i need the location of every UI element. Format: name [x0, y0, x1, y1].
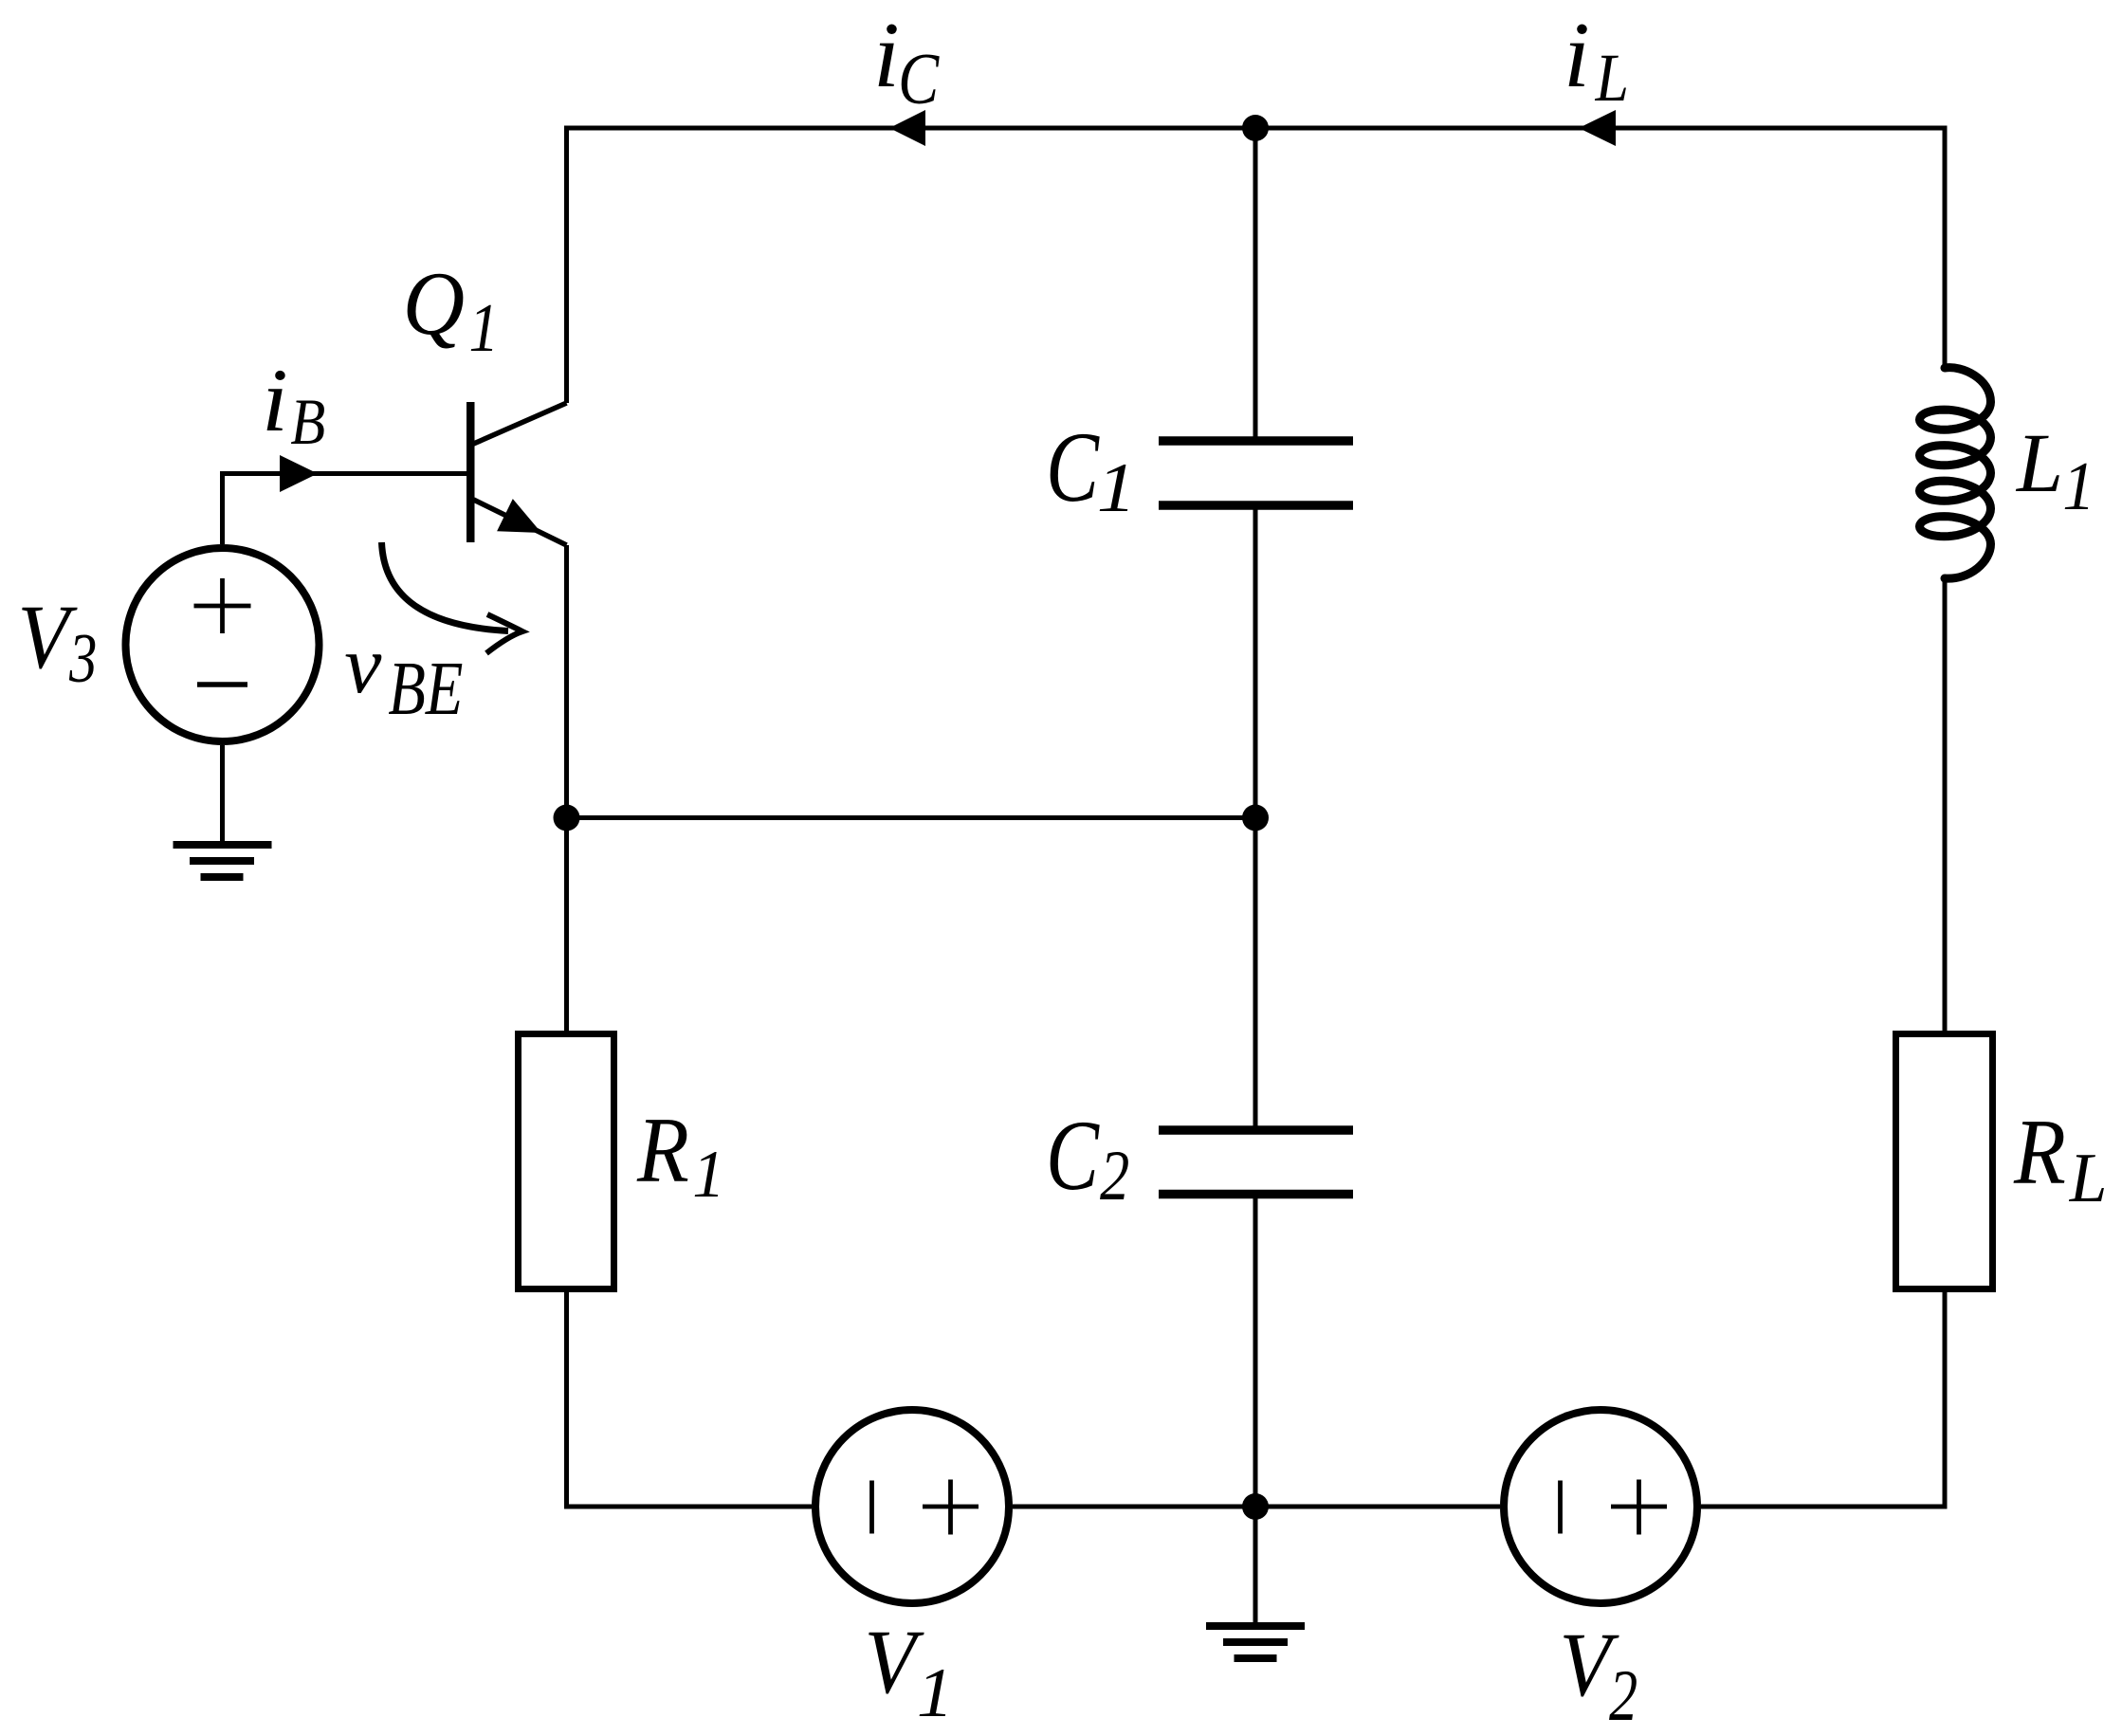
wire: V1 left terminal, bottom-left corner, up to R1 bottom — [567, 1292, 813, 1507]
svg-text:V: V — [865, 1612, 924, 1713]
svg-text:3: 3 — [68, 621, 97, 698]
current arrow iB — [280, 455, 318, 492]
junction node (emitter/R1) — [554, 805, 580, 831]
wire: C2 to bottom junction — [1253, 1197, 1258, 1507]
junction node (bottom, V1/V2/C2/ground) — [1242, 1493, 1269, 1520]
label vBE — [344, 619, 463, 731]
wire: bottom junction to ground — [1253, 1507, 1258, 1623]
label Q1 — [403, 254, 499, 366]
svg-text:BE: BE — [388, 647, 463, 731]
current arrow iC — [889, 110, 925, 146]
svg-text:C: C — [1046, 411, 1100, 523]
label V1 — [865, 1612, 954, 1732]
resistor R1 — [519, 1034, 614, 1289]
svg-text:R: R — [636, 1099, 689, 1202]
label iL — [1564, 5, 1629, 116]
wire: RL bottom, bottom-right corner to V2 right terminal — [1701, 1292, 1945, 1507]
svg-text:1: 1 — [1097, 449, 1136, 527]
capacitor C2 — [1159, 1125, 1353, 1198]
junction node (C1/C2 mid) — [1242, 805, 1269, 831]
svg-text:C: C — [898, 40, 940, 120]
label RL — [2013, 1101, 2107, 1216]
svg-text:v: v — [344, 619, 381, 710]
svg-text:i: i — [262, 351, 288, 450]
svg-text:R: R — [2013, 1101, 2066, 1204]
wire: V2 left terminal to V1 right terminal — [1013, 1505, 1500, 1509]
svg-text:1: 1 — [917, 1654, 954, 1731]
capacitor C1 — [1159, 436, 1353, 510]
vBE curved arrow — [382, 542, 523, 653]
svg-text:B: B — [290, 386, 325, 459]
ground (bottom center) — [1206, 1622, 1305, 1662]
junction node (top, collector/C1/L1) — [1242, 115, 1269, 141]
wire: emitter vertical down to R1 top — [564, 545, 569, 1031]
svg-text:1: 1 — [692, 1138, 724, 1212]
svg-text:2: 2 — [1100, 1135, 1129, 1215]
label V3 — [18, 587, 98, 698]
label R1 — [636, 1099, 725, 1212]
wire: L1 bottom to RL top — [1943, 578, 1948, 1031]
label iB — [262, 351, 325, 459]
svg-text:C: C — [1046, 1100, 1100, 1212]
wire: C1 to C2 through mid junction — [1253, 508, 1258, 1128]
svg-text:L: L — [2069, 1139, 2108, 1216]
label V2 — [1560, 1615, 1638, 1736]
voltage source V2 — [1504, 1410, 1697, 1603]
svg-text:i: i — [1564, 5, 1590, 107]
svg-text:i: i — [873, 5, 900, 107]
label C1 — [1046, 411, 1136, 527]
svg-text:2: 2 — [1609, 1654, 1637, 1736]
wire: center branch top junction to C1 — [1253, 128, 1258, 438]
voltage source V3 — [126, 548, 320, 741]
label iC — [873, 5, 940, 120]
svg-text:Q: Q — [403, 254, 465, 355]
wire: collector top-left corner, top wire, right branch down to L1 — [567, 128, 1946, 403]
wire: V3 bottom to ground — [220, 745, 225, 842]
wire: base wire from V3 to Q1 base — [223, 474, 467, 545]
inductor L1 — [1920, 368, 1991, 579]
svg-text:1: 1 — [469, 289, 499, 366]
svg-text:L: L — [2015, 417, 2063, 510]
label C2 — [1046, 1100, 1129, 1215]
resistor RL — [1896, 1034, 1993, 1289]
voltage source V1 — [815, 1410, 1009, 1603]
svg-text:1: 1 — [2062, 448, 2095, 524]
wire: mid horizontal emitter node to center node — [567, 815, 1256, 820]
svg-text:L: L — [1595, 39, 1629, 116]
ground (below V3) — [174, 841, 272, 881]
label L1 — [2015, 417, 2095, 525]
current arrow iL — [1579, 110, 1616, 146]
transistor Q1 — [466, 402, 567, 545]
